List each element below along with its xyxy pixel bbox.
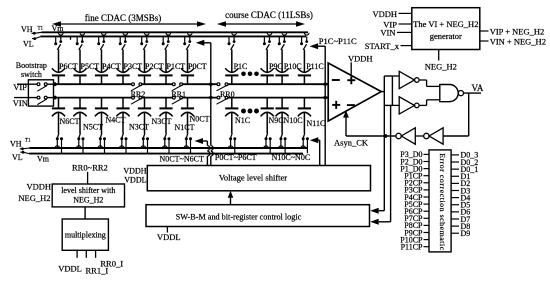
switch pair P10C top [278,33,287,50]
svg-text:D9: D9 [461,229,471,238]
node P2_D0 [400,157,429,166]
course CDAC (11LSBs) range arrow [217,10,313,27]
svg-text:switch: switch [21,70,42,79]
node VDDL (multiplexing) [58,250,82,273]
svg-text:Bootstrap: Bootstrap [16,61,47,70]
inverter U2 [392,71,419,88]
wire level shifter to multiplexing [84,207,86,219]
node VIP [13,82,37,92]
node P2CP [404,179,429,188]
switch pair P0CT top [183,33,192,50]
node RR0~RR2 [72,162,108,184]
node P4CP [404,193,429,202]
svg-text:N6CT: N6CT [60,117,80,126]
node P8CP [404,221,429,230]
capacitor N10C [276,98,303,134]
svg-text:N10C: N10C [284,116,303,125]
svg-text:VDDH: VDDH [26,182,51,192]
wire control coarse top (arrow into P1C-P11C switches) [310,36,357,165]
svg-text:RR0: RR0 [220,90,235,99]
wire bus VIN (bottom plate net) [55,97,328,99]
block error correction schematic [429,150,451,252]
wire VA feedback [443,93,469,136]
capacitor P6CT [52,50,78,85]
node RR1_I [86,250,109,275]
block voltage level shifter [147,166,370,191]
svg-text:Voltage level shifter: Voltage level shifter [219,173,287,183]
wire control fine top (arrow into P0CT switches) [196,40,213,166]
svg-text:RR0~RR2: RR0~RR2 [72,162,108,172]
node RR0_I [96,250,124,268]
capacitor P11C [298,50,324,85]
svg-text:P0CT~P6CT: P0CT~P6CT [215,153,257,162]
node Asyn_CK [334,110,369,147]
switch pair N0CT bottom [184,133,192,153]
switch pair P9C top [263,33,272,50]
junction bus mid [208,82,214,100]
node VIP (generator input) [383,19,412,29]
switch pair N6CT bottom [55,133,63,153]
svg-text:N5CT: N5CT [83,122,103,131]
svg-text:fine CDAC (3MSBs): fine CDAC (3MSBs) [85,13,162,23]
capacitor P1C [225,50,247,85]
svg-text:VH: VH [21,25,33,34]
svg-text:VDDH: VDDH [123,166,146,175]
node D7 [451,215,470,224]
wire bus VIP (top plate net) [55,83,328,85]
wire top rail VL [41,35,307,37]
switch pair N3CT bottom [141,133,149,153]
dots top coarse CDAC [241,72,259,77]
svg-text:P1C~P11C: P1C~P11C [319,36,357,46]
capacitor N1CT [159,98,194,134]
capacitor N6CT [52,98,80,134]
node VL (top) [23,40,34,49]
junction bus left [52,82,58,100]
switch pair N9C bottom [264,133,272,153]
node D0_1 [451,165,478,174]
bootstrap switch box [28,80,53,106]
switch pair P5CT top [76,33,85,50]
svg-text:course CDAC (11LSBs): course CDAC (11LSBs) [225,10,313,20]
switch VL bottom [20,151,29,154]
svg-text:VIN: VIN [13,98,28,108]
node VDDL (level shifter) [124,176,146,185]
node Vm (bottom) [37,155,50,164]
wire comparator output to SW logic (left) [370,76,384,214]
inverter U3 [392,97,419,114]
svg-text:VDDL: VDDL [58,263,82,273]
node P6CP [404,207,429,216]
switch pair N1CT bottom [162,133,170,153]
node VIN (generator input) [380,27,411,37]
node NEG_H2 [425,50,457,72]
svg-text:Asyn_CK: Asyn_CK [334,138,369,148]
node D4 [451,193,470,202]
svg-text:VIN + NEG_H2: VIN + NEG_H2 [490,36,546,46]
svg-text:VDDL: VDDL [124,176,146,185]
junction bus right [322,82,328,100]
svg-text:VDDH: VDDH [348,53,373,63]
capacitor P0CT [181,50,207,85]
node P11CP [401,243,429,252]
wire top rail VH [42,31,309,33]
wire bottom rail VH [30,147,309,149]
capacitor P2CT [138,50,164,85]
capacitor N1C [225,98,250,134]
switch VL top [32,37,41,40]
capacitor P9C [261,50,283,85]
node VDDH (comparator supply) [348,53,373,75]
switch RR1 [171,83,186,104]
svg-text:VDDL: VDDL [157,232,181,242]
svg-text:VIP + NEG_H2: VIP + NEG_H2 [490,26,545,36]
svg-text:P1C: P1C [234,62,248,71]
switch pair P1C top [228,33,237,50]
svg-text:NEG_H2: NEG_H2 [425,62,457,72]
switch pair P6CT top [54,33,63,50]
node D1 [451,172,470,181]
svg-text:T1: T1 [25,138,31,143]
svg-text:N0CT: N0CT [190,115,210,124]
node VIP + NEG_H2 [480,26,544,36]
capacitor N9C [261,98,284,134]
node D0_2 [451,158,478,167]
svg-text:N0CT~N6CT: N0CT~N6CT [160,154,204,163]
svg-text:RR1: RR1 [171,90,186,99]
node N10C~N0C [272,153,311,162]
nand gate U4 [440,85,464,102]
node N0CT~N6CT [160,154,204,163]
bootstrap switch block label [16,61,47,79]
node D8 [451,222,470,231]
node P3_D0 [400,150,429,159]
block level shifter with NEG_H2 [52,184,124,207]
wire SW-B-M to level shifter [228,191,234,205]
switch pair P3CT top [119,33,128,50]
dots bottom coarse CDAC [241,109,259,114]
block SW-B-M control logic [146,205,370,227]
node P5CP [404,200,429,209]
node VDDH (level shifter) [123,166,146,175]
node VL (bottom) [12,153,23,162]
svg-text:P0CT: P0CT [188,62,207,71]
block VI+NEG_H2 generator [412,8,480,50]
switch pair P4CT top [97,33,106,50]
wire comparator output box [381,76,392,105]
svg-text:VA: VA [472,83,484,93]
svg-text:VL: VL [23,40,34,49]
wire control coarse bottom (arrow into N11C switches) [310,137,320,165]
node P1CP [404,172,429,181]
wire U3 to NAND [419,100,440,106]
switch pair N4CT bottom [98,133,106,153]
node D3 [451,186,470,195]
node P10CP [400,235,429,244]
capacitor N0CT [181,98,210,134]
inverter U5 [415,128,443,144]
node VIN + NEG_H2 [480,36,546,46]
node P1_D0 [400,164,429,173]
svg-text:N11C: N11C [307,119,326,128]
wire control fine bottom (arrow into N0CT switches) [195,138,210,166]
svg-text:RR2: RR2 [131,90,146,99]
junction Asyn_CK feedback [384,134,388,138]
svg-text:Vm: Vm [37,155,50,164]
svg-text:generator: generator [430,31,462,41]
switch VH top [32,32,42,35]
switch pair P1CT top [162,33,171,50]
svg-text:VL: VL [12,153,23,162]
node START_x [365,41,412,51]
switch VIN [37,96,55,104]
switch pair N11C bottom [301,133,309,153]
svg-text:T1: T1 [38,26,44,31]
op-amp U1 comparator [328,63,381,121]
node D0_3 [451,151,478,160]
node VDDH (generator input) [372,9,411,19]
node P7CP [404,214,429,223]
capacitor P3CT [116,50,142,85]
capacitor N5CT [73,98,103,134]
svg-text:N1C: N1C [235,116,250,125]
svg-text:VDDH: VDDH [372,9,397,19]
svg-text:P11CP: P11CP [401,243,423,252]
node VA [464,83,484,93]
switch pair P2CT top [140,33,149,50]
node D5 [451,201,470,210]
capacitor N3CT [116,98,149,134]
svg-text:multiplexing: multiplexing [65,231,106,240]
node VH (top) [21,25,44,34]
svg-text:N3CT: N3CT [152,117,172,126]
svg-text:N3CT: N3CT [129,122,149,131]
svg-text:VH: VH [10,139,22,148]
capacitor N11C [298,98,326,134]
switch pair N3CT bottom [119,133,127,153]
node NEG_H2 (NEG level shifter) [18,193,50,203]
wire stub on VL rail [70,37,72,40]
node VH (bottom) [10,138,31,148]
node D9 [451,229,470,238]
svg-text:N1CT: N1CT [175,123,195,132]
block multiplexing [62,219,108,250]
node D6 [451,208,470,217]
capacitor N4CT [95,98,126,134]
capacitor P5CT [73,50,99,85]
wire bottom rail VL [29,153,303,155]
inverter U6 [346,128,415,144]
svg-text:NEG_H2: NEG_H2 [18,193,50,203]
node VDDL (SW-B-M) [157,227,181,243]
svg-text:START_x: START_x [365,41,400,51]
svg-text:The VI + NEG_H2: The VI + NEG_H2 [413,19,478,29]
node P9CP [404,228,429,237]
capacitor P1CT [159,50,185,85]
svg-text:VIN: VIN [380,27,395,37]
node Vm (top) [52,24,65,33]
switch pair N1C bottom [228,133,236,153]
svg-text:Error correction schematic: Error correction schematic [438,153,447,251]
switch pair P11C top [300,33,309,50]
wire U2 to NAND [419,80,440,86]
fine CDAC (3MSBs) range arrow [52,13,206,27]
capacitor P4CT [95,50,121,85]
node P0CT~P6CT [215,153,257,162]
switch RR2 [131,83,146,104]
switch RR0 [217,83,235,104]
node P3CP [404,186,429,195]
switch pair N10C bottom [279,133,287,153]
node D2 [451,179,470,188]
capacitor N3CT [138,98,172,134]
wire comparator output to SW logic (right) [370,76,392,225]
svg-text:NEG_H2: NEG_H2 [73,196,103,205]
capacitor P10C [276,50,302,85]
switch VIP [37,83,55,91]
svg-text:SW-B-M and bit-register contro: SW-B-M and bit-register control logic [176,213,302,222]
svg-text:RR0_I: RR0_I [100,258,123,268]
switch VH bottom [20,147,30,150]
switch pair N5CT bottom [76,133,84,153]
node VDDH (NEG level shifter) [26,182,51,192]
node VIN [13,98,37,108]
svg-text:level shifter with: level shifter with [61,186,115,195]
svg-text:P11C: P11C [306,62,324,71]
svg-text:N10C~N0C: N10C~N0C [272,153,311,162]
